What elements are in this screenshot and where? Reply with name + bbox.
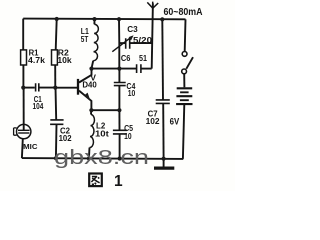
svg-text:10k: 10k [57, 55, 72, 65]
svg-text:1: 1 [114, 173, 123, 190]
svg-text:10: 10 [124, 131, 132, 141]
svg-text:C3: C3 [127, 24, 138, 34]
svg-text:60~80mA: 60~80mA [164, 7, 203, 18]
svg-text:D40: D40 [82, 79, 97, 89]
svg-text:10: 10 [128, 88, 136, 98]
svg-text:102: 102 [146, 116, 160, 126]
svg-text:gbx8.cn: gbx8.cn [54, 147, 149, 169]
svg-text:104: 104 [33, 101, 44, 111]
svg-text:5/20: 5/20 [133, 35, 152, 45]
svg-text:102: 102 [59, 133, 72, 143]
svg-text:4.7k: 4.7k [28, 55, 45, 65]
svg-text:6V: 6V [170, 117, 180, 127]
svg-text:5T: 5T [81, 34, 89, 44]
svg-text:C6: C6 [121, 53, 131, 63]
svg-text:MIC: MIC [23, 142, 38, 151]
svg-text:51: 51 [139, 53, 147, 63]
svg-text:10t: 10t [95, 128, 109, 138]
